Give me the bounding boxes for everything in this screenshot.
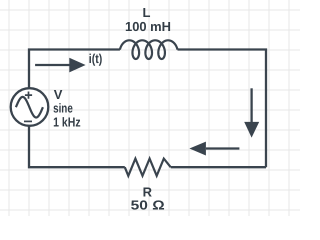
svg-text:sine: sine — [53, 100, 73, 115]
current arrow bottom (left) — [189, 142, 239, 156]
wire top-right from inductor right and down right side — [178, 50, 267, 168]
resistor R — [125, 159, 171, 176]
wire bottom-right from right side to resistor — [171, 166, 266, 168]
svg-text:1 kHz: 1 kHz — [53, 115, 81, 130]
current arrow i(t) — [35, 58, 86, 73]
svg-text:50 Ω: 50 Ω — [131, 197, 165, 212]
current arrow right side (down) — [244, 88, 259, 137]
svg-text:L: L — [143, 5, 151, 20]
wire bottom-left from resistor to source - terminal — [29, 126, 125, 167]
voltage source V — [11, 88, 49, 126]
sine symbol inside source — [16, 97, 43, 118]
svg-text:100 mH: 100 mH — [125, 19, 171, 34]
minus sign — [24, 120, 32, 122]
svg-text:i(t): i(t) — [89, 51, 103, 66]
plus sign — [25, 92, 32, 99]
inductor L — [120, 40, 178, 59]
wire top-left from source + terminal up and right to inductor — [29, 50, 120, 89]
